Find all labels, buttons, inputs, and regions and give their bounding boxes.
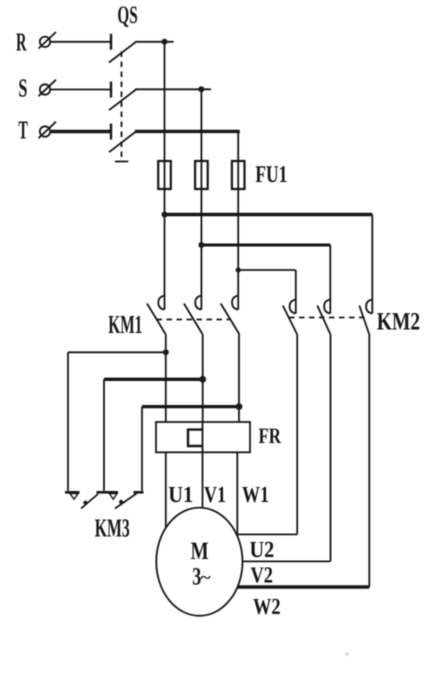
svg-text:W1: W1 <box>242 482 269 507</box>
svg-text:R: R <box>16 28 27 57</box>
svg-text:U1: U1 <box>168 482 193 507</box>
svg-text:KM1: KM1 <box>108 310 142 339</box>
svg-text:FU1: FU1 <box>255 162 287 188</box>
svg-text:KM2: KM2 <box>377 308 420 335</box>
svg-text:V1: V1 <box>204 482 226 507</box>
svg-text:KM3: KM3 <box>95 514 130 543</box>
svg-text:V2: V2 <box>251 563 274 588</box>
svg-text:M: M <box>191 538 209 565</box>
svg-text:T: T <box>18 116 28 145</box>
svg-text:S: S <box>18 73 27 102</box>
svg-text:QS: QS <box>117 2 137 29</box>
svg-text:~: ~ <box>201 568 211 587</box>
svg-text:U2: U2 <box>250 537 275 562</box>
svg-text:W2: W2 <box>253 594 281 619</box>
svg-text:FR: FR <box>259 423 282 448</box>
